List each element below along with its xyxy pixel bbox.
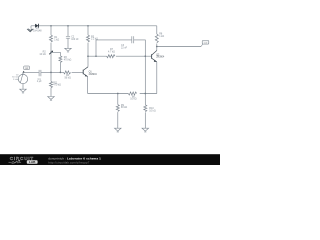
svg-text:22 nF: 22 nF: [121, 47, 128, 50]
svg-text:1 kHz: 1 kHz: [13, 79, 19, 81]
svg-text:470 kΩ: 470 kΩ: [64, 58, 72, 61]
svg-text:2N3904: 2N3904: [89, 74, 98, 76]
svg-text:1 µF: 1 µF: [37, 80, 42, 83]
svg-text:10 kΩ: 10 kΩ: [149, 110, 156, 113]
svg-text:470 kΩ: 470 kΩ: [53, 84, 61, 87]
svg-text:http://circuitlab.com/c/hsupp7: http://circuitlab.com/c/hsupp7: [48, 161, 90, 165]
svg-text:1N4148: 1N4148: [33, 29, 42, 32]
svg-text:56 kΩ: 56 kΩ: [64, 76, 71, 79]
svg-text:1 kΩ: 1 kΩ: [54, 38, 59, 41]
svg-text:4.7 kΩ: 4.7 kΩ: [108, 50, 115, 53]
svg-text:68 kΩ: 68 kΩ: [121, 106, 128, 109]
svg-text:100 nF: 100 nF: [71, 38, 79, 41]
svg-text:2.2 kΩ: 2.2 kΩ: [91, 38, 98, 41]
svg-text:10 kΩ: 10 kΩ: [39, 53, 46, 56]
svg-text:out: out: [204, 41, 207, 44]
svg-text:LAB: LAB: [29, 160, 36, 164]
svg-text:10 kΩ: 10 kΩ: [130, 98, 137, 101]
svg-text:2N3904: 2N3904: [156, 57, 165, 59]
svg-text:1 kΩ: 1 kΩ: [159, 35, 164, 38]
